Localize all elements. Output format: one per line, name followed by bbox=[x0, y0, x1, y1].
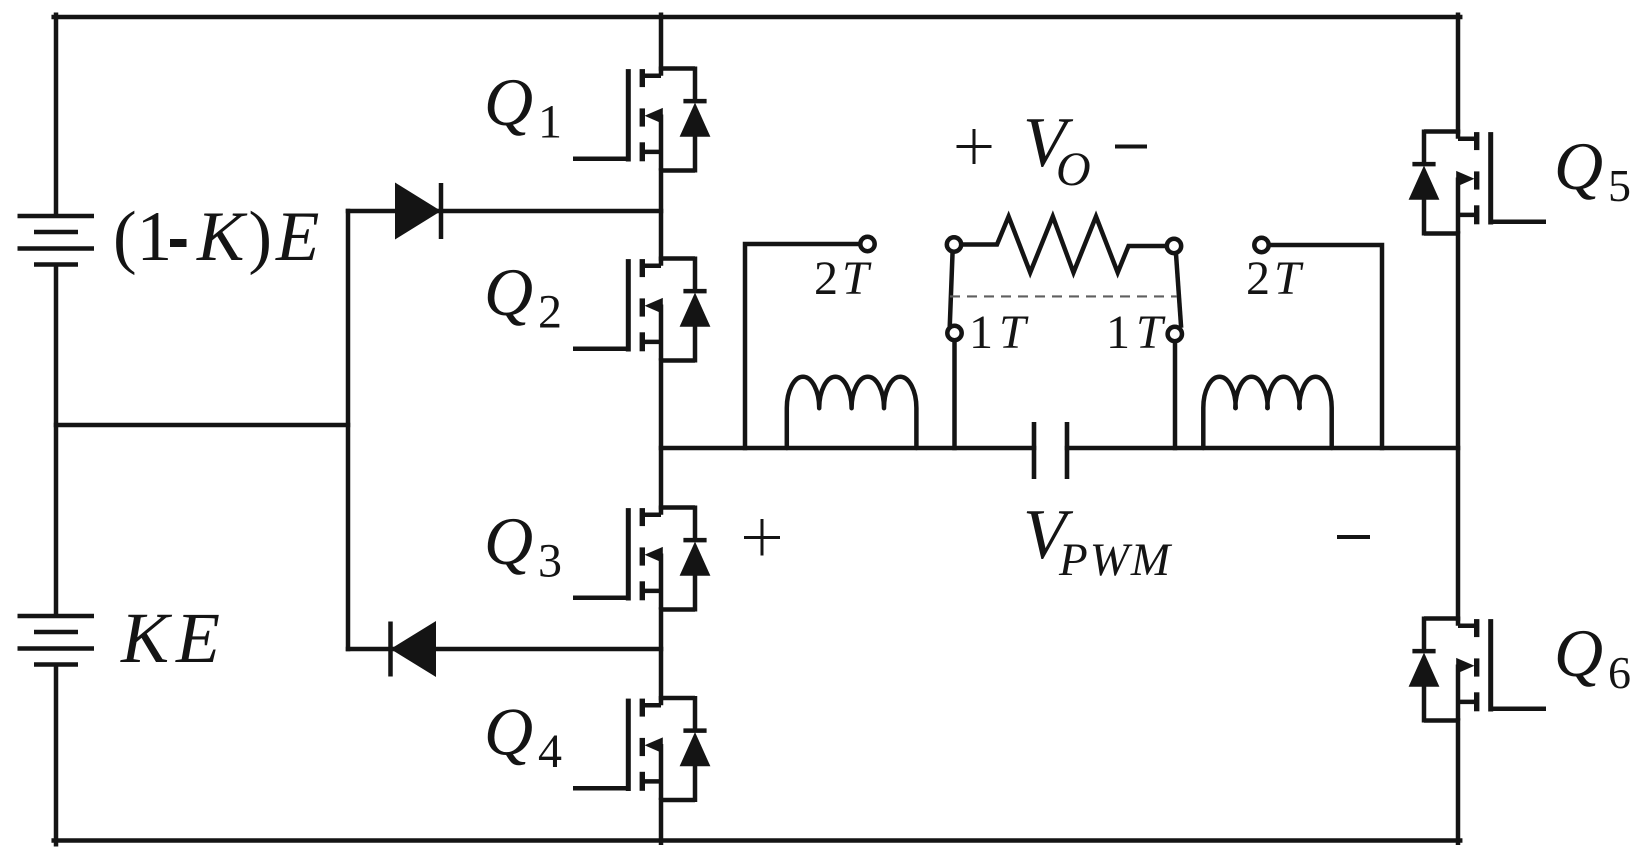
svg-text:KE: KE bbox=[120, 598, 227, 678]
svg-text:1T: 1T bbox=[969, 306, 1032, 359]
wire right border middle (Q5 source to Q6 drain) bbox=[1456, 234, 1461, 619]
svg-text:Q: Q bbox=[484, 64, 533, 140]
plus sign of V_O bbox=[957, 129, 992, 164]
terminal circle 1T left bbox=[947, 326, 961, 340]
wire Q-column top (top border to Q1 drain) bbox=[659, 15, 664, 69]
terminal circle 2T left bbox=[860, 237, 874, 251]
svg-text:Q: Q bbox=[484, 254, 533, 330]
terminal circle 2T right bbox=[1254, 238, 1268, 252]
inductor L1 (left) bbox=[787, 377, 917, 448]
capacitor C1 plates bbox=[1034, 422, 1067, 479]
svg-text:2: 2 bbox=[538, 286, 562, 339]
transistor Q4 bbox=[573, 696, 710, 802]
wire Q4 source to bottom border bbox=[659, 800, 664, 843]
svg-text:Q: Q bbox=[1554, 615, 1603, 691]
minus sign of V_PWM bbox=[1337, 535, 1370, 539]
battery B2 KE bbox=[18, 616, 95, 665]
wire right border bottom (Q6 source to bottom) bbox=[1456, 721, 1461, 843]
svg-text:2T: 2T bbox=[1246, 252, 1305, 305]
wire left border upper (to battery B1) bbox=[54, 15, 59, 214]
wire left bus vertical bbox=[346, 211, 351, 649]
transistor Q5 (mirrored) bbox=[1409, 130, 1546, 236]
wire left tap slant bbox=[950, 254, 953, 325]
wire Q1 source to Q2 drain bbox=[659, 171, 664, 259]
wire right 2T terminal riser bbox=[1271, 245, 1382, 448]
transistor Q3 bbox=[573, 506, 710, 612]
terminal circle 1T right bbox=[1168, 327, 1182, 341]
svg-text:3: 3 bbox=[538, 535, 562, 588]
wire mid-left (between batteries to bus) bbox=[56, 423, 348, 428]
wire lower diode rail bbox=[348, 647, 661, 652]
svg-text:4: 4 bbox=[538, 725, 562, 778]
terminal circle resistor right bbox=[1167, 239, 1181, 253]
diode D2 (lower, pointing left) bbox=[391, 621, 437, 677]
svg-text:Q: Q bbox=[484, 694, 533, 770]
minus sign of V_O bbox=[1115, 145, 1147, 149]
plus sign of V_PWM bbox=[744, 519, 780, 556]
transistor Q1 bbox=[573, 67, 710, 173]
wire right tap slant bbox=[1176, 254, 1181, 326]
svg-text:1T: 1T bbox=[1106, 306, 1169, 359]
transistor Q2 bbox=[573, 257, 710, 363]
wire upper diode rail bbox=[348, 209, 661, 214]
svg-text:PWM: PWM bbox=[1058, 534, 1173, 586]
wire PWM rail left segment (to capacitor) bbox=[661, 446, 1034, 451]
svg-text:Q: Q bbox=[484, 503, 533, 579]
svg-text:5: 5 bbox=[1608, 160, 1631, 211]
wire right 1T tap riser bbox=[1173, 343, 1178, 448]
diode D1 (upper, pointing right) bbox=[395, 183, 441, 240]
wire left border middle (battery B1 to battery B2) bbox=[54, 267, 59, 615]
dashed coupling line bbox=[950, 295, 1177, 297]
svg-text:1: 1 bbox=[538, 96, 562, 149]
battery B1 (1-K)E bbox=[18, 216, 95, 265]
wire top border bbox=[54, 15, 1461, 20]
wire Q3 source to Q4 drain bbox=[659, 610, 664, 699]
transistor Q6 (mirrored) bbox=[1409, 617, 1546, 723]
wire right border top (to Q5 drain) bbox=[1456, 15, 1461, 132]
svg-text:O: O bbox=[1056, 143, 1091, 196]
resistor R (V_O winding) bbox=[963, 217, 1165, 273]
wire PWM rail right segment (capacitor to right border) bbox=[1067, 446, 1458, 451]
svg-text:2T: 2T bbox=[814, 252, 873, 305]
svg-text:K)E: K)E bbox=[196, 198, 323, 276]
wire bottom border bbox=[54, 838, 1461, 843]
wire Q2 source to Q3 drain (through PWM node) bbox=[659, 361, 664, 508]
wire left 2T terminal riser bbox=[745, 244, 859, 448]
wire left border lower (battery B2 to bottom) bbox=[54, 667, 59, 845]
svg-text:Q: Q bbox=[1554, 128, 1603, 204]
wire left 1T tap riser bbox=[952, 342, 957, 448]
terminal circle resistor left bbox=[947, 237, 961, 251]
svg-text:(1: (1 bbox=[113, 198, 172, 276]
inductor L2 (right) bbox=[1203, 377, 1331, 448]
svg-text:6: 6 bbox=[1608, 647, 1631, 698]
